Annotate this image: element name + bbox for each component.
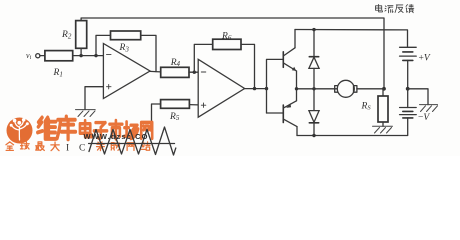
svg-text:R2: R2 xyxy=(61,30,72,41)
transistor Q2 xyxy=(283,101,297,127)
svg-text:R3: R3 xyxy=(119,43,130,54)
watermark 电子市场网 xyxy=(80,120,152,139)
transistor Q1 xyxy=(283,48,296,71)
wire emitter riser xyxy=(296,71,298,89)
wire xyxy=(241,44,255,88)
wire collector riser q2 xyxy=(296,127,298,136)
triangle waveform xyxy=(89,127,176,155)
resistor RS xyxy=(361,89,389,127)
diode D1 xyxy=(309,30,319,89)
resistor R1 xyxy=(45,51,73,79)
wire xyxy=(85,87,103,110)
svg-text:RS: RS xyxy=(361,102,372,112)
wire xyxy=(245,88,267,90)
diode D2 xyxy=(309,89,319,136)
node xyxy=(312,28,315,31)
node Rs top xyxy=(382,87,386,91)
input terminal vi xyxy=(26,51,40,61)
node xyxy=(312,134,315,137)
op-amp U2 xyxy=(198,59,244,117)
motor M xyxy=(335,80,357,97)
node xyxy=(94,54,97,57)
wire xyxy=(189,71,198,73)
resistor R5 xyxy=(161,100,190,123)
svg-text:I: I xyxy=(66,144,69,154)
svg-text:R5: R5 xyxy=(169,112,180,122)
wire xyxy=(357,88,384,90)
node battery mid xyxy=(406,87,410,91)
svg-text:R1: R1 xyxy=(53,68,63,79)
wire xyxy=(194,44,212,72)
ground xyxy=(420,105,438,112)
svg-text:R4: R4 xyxy=(170,58,181,68)
node xyxy=(253,87,256,90)
node xyxy=(265,87,268,90)
wire xyxy=(96,35,111,55)
wire xyxy=(152,104,161,127)
watermark logo xyxy=(7,118,33,144)
resistor R6 xyxy=(213,32,241,50)
wire feedback top xyxy=(81,18,384,89)
wire xyxy=(267,112,283,114)
battery -V xyxy=(400,89,431,123)
wire xyxy=(189,104,198,106)
watermark bottom line 全球最大IC采购网站 xyxy=(6,142,150,154)
wire xyxy=(40,55,45,57)
wire collector riser xyxy=(294,30,296,48)
output wire xyxy=(297,88,338,90)
node emitter xyxy=(295,87,298,90)
wire emitter riser q2 xyxy=(296,89,298,101)
ground xyxy=(373,126,393,133)
op-amp U1 xyxy=(103,44,150,99)
resistor R2 xyxy=(61,21,87,49)
watermark 维库 xyxy=(38,117,76,140)
node xyxy=(193,71,196,74)
label current feedback 电流反馈 xyxy=(375,4,413,12)
svg-text:vi: vi xyxy=(26,51,32,61)
resistor R4 xyxy=(161,58,189,78)
wire xyxy=(73,55,104,57)
bottom rail xyxy=(297,118,408,136)
svg-text:C: C xyxy=(79,144,85,154)
node diode xyxy=(312,87,315,90)
node xyxy=(79,54,82,57)
wire xyxy=(150,70,161,73)
wire to ground xyxy=(408,89,428,105)
svg-text:−V: −V xyxy=(418,113,430,123)
svg-text:R6: R6 xyxy=(221,32,232,42)
ground xyxy=(76,110,96,117)
wire xyxy=(80,48,82,55)
wire base riser xyxy=(267,59,283,113)
resistor R3 xyxy=(111,31,141,54)
top rail xyxy=(295,30,408,48)
svg-text:+V: +V xyxy=(419,54,431,64)
battery +V xyxy=(400,47,431,89)
wire xyxy=(141,35,156,71)
